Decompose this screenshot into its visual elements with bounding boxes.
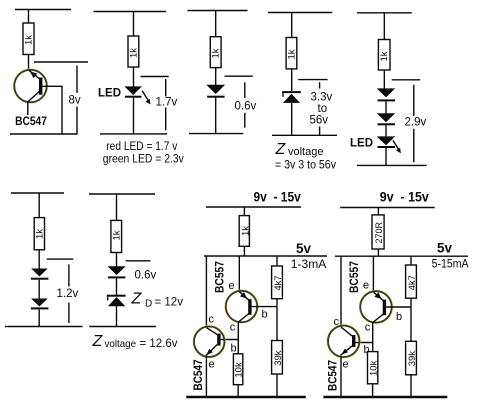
- label ZD = 12v: [131, 291, 184, 310]
- diode D7: [31, 299, 49, 310]
- resistor R2: [128, 36, 139, 67]
- CIRCUIT9: [323, 190, 468, 398]
- bottom rail: [357, 164, 427, 166]
- wire D7 to rail: [38, 309, 40, 326]
- light arrow: [142, 91, 150, 105]
- wire rail to R12: [377, 208, 379, 215]
- bottom rail: [272, 134, 337, 136]
- zener diode ZD1: [282, 91, 301, 103]
- svg-text:e: e: [363, 280, 369, 292]
- svg-text:BC557: BC557: [213, 261, 227, 293]
- wire D2 to rail: [215, 98, 217, 134]
- CIRCUIT3: [188, 11, 257, 135]
- svg-text:4k7: 4k7: [273, 275, 284, 290]
- resistor R6: [34, 218, 44, 250]
- resistor R4: [286, 38, 297, 69]
- svg-text:5v: 5v: [437, 241, 453, 256]
- svg-text:e: e: [343, 359, 349, 371]
- wire R3 to D2: [215, 68, 217, 85]
- measure line vertical: [413, 85, 415, 163]
- svg-text:2.9v: 2.9v: [405, 117, 427, 129]
- svg-text:1k: 1k: [35, 229, 46, 239]
- diode D2: [206, 85, 225, 98]
- measure line top: [298, 79, 327, 81]
- svg-text:= 3v 3 to 56v: = 3v 3 to 56v: [275, 160, 336, 172]
- svg-text:LED: LED: [350, 138, 373, 150]
- svg-text:0.6v: 0.6v: [235, 101, 257, 113]
- wire LED to rail: [133, 98, 135, 134]
- measure line vertical: [76, 66, 78, 135]
- wire rail to R7: [116, 194, 118, 220]
- resistor R14 39k: [406, 341, 417, 375]
- svg-text:1k: 1k: [128, 48, 139, 58]
- LED D1: [124, 86, 142, 97]
- diode D8: [108, 266, 126, 278]
- light arrow: [393, 140, 401, 153]
- svg-text:10k: 10k: [234, 362, 245, 378]
- wire R10 to 0v rail: [276, 374, 278, 397]
- wire D3 to D4: [385, 101, 387, 113]
- svg-text:9v - 15v: 9v - 15v: [254, 190, 302, 205]
- measure line top: [34, 61, 88, 63]
- resistor R5: [378, 40, 390, 71]
- measure line vertical: [165, 79, 167, 130]
- CIRCUIT7: [89, 194, 183, 350]
- svg-text:BC547: BC547: [193, 360, 205, 391]
- wire 5v rail to R9: [276, 256, 278, 266]
- svg-text:= 12v: = 12v: [155, 297, 184, 309]
- resistor R12 270R: [372, 215, 384, 249]
- svg-text:9v - 15v: 9v - 15v: [380, 190, 429, 205]
- svg-text:1.2v: 1.2v: [57, 288, 79, 300]
- CIRCUIT6: [5, 193, 83, 327]
- CIRCUIT4: [268, 13, 337, 172]
- svg-text:voltage: voltage: [288, 146, 323, 158]
- svg-text:e: e: [209, 359, 215, 371]
- CIRCUIT2: [94, 12, 185, 166]
- svg-text:= 12.6v: = 12.6v: [140, 338, 178, 350]
- supply rail top: [268, 12, 332, 14]
- bottom rail: [5, 326, 83, 328]
- measure line top: [47, 258, 74, 260]
- resistor R8 1k: [239, 216, 249, 247]
- wire R2 to LED: [133, 67, 135, 87]
- svg-text:red LED = 1.7 v: red LED = 1.7 v: [106, 141, 177, 153]
- svg-text:39k: 39k: [273, 350, 284, 366]
- svg-text:Z: Z: [131, 291, 143, 308]
- collector stub: [27, 102, 29, 115]
- svg-text:1.7v: 1.7v: [156, 97, 178, 109]
- svg-text:b: b: [396, 311, 402, 323]
- measure line top: [141, 76, 169, 78]
- wire R7 to D8: [116, 253, 118, 268]
- diode D4: [377, 113, 396, 125]
- resistor R9 4k7: [272, 266, 283, 299]
- transistor Q5 BC547: [327, 325, 360, 358]
- svg-text:BC557: BC557: [347, 261, 361, 293]
- base wire Q3: [220, 339, 238, 341]
- svg-text:10k: 10k: [368, 360, 379, 376]
- svg-text:1k: 1k: [211, 48, 222, 58]
- svg-text:b: b: [231, 343, 237, 355]
- measure line top: [392, 79, 421, 81]
- CIRCUIT1: [10, 10, 88, 135]
- measure line short: [126, 260, 151, 262]
- CIRCUIT8: [186, 190, 327, 398]
- supply rail top: [357, 12, 412, 14]
- svg-text:Z: Z: [275, 141, 287, 158]
- wire left branch upper: [340, 256, 342, 326]
- svg-text:56v: 56v: [310, 115, 329, 127]
- svg-text:5-15mA: 5-15mA: [432, 259, 469, 271]
- wire LED to rail: [385, 148, 387, 165]
- wire left branch upper: [205, 256, 207, 327]
- svg-text:270R: 270R: [374, 221, 384, 243]
- bottom rail: [100, 133, 167, 135]
- svg-text:c: c: [365, 321, 371, 333]
- base wire Q2: [252, 306, 277, 308]
- rail 5v: [335, 255, 468, 257]
- supply rail top: [89, 193, 155, 195]
- wire R11 to 0v rail: [237, 385, 239, 398]
- svg-text:1k: 1k: [112, 230, 123, 240]
- svg-text:Z: Z: [92, 333, 104, 350]
- supply rail top: [94, 11, 167, 13]
- wire rail to R2: [133, 12, 135, 37]
- zener diode ZD2: [107, 295, 126, 307]
- resistor R11 10k: [233, 354, 242, 385]
- resistor R1: [23, 23, 34, 55]
- wire 5v rail to Q2 emitter: [238, 256, 240, 292]
- wire Q2 collector down: [237, 322, 239, 354]
- bottom rail: [10, 133, 78, 135]
- svg-text:voltage: voltage: [105, 338, 137, 350]
- wire left branch lower: [340, 357, 342, 398]
- bottom rail: [189, 133, 243, 135]
- svg-text:1k: 1k: [240, 226, 251, 236]
- wire R13 to R14: [410, 298, 412, 341]
- wire ZD2 to rail: [116, 306, 118, 326]
- svg-text:BC547: BC547: [15, 116, 47, 128]
- supply rail top: [206, 206, 301, 208]
- wire R14 to 0v rail: [410, 375, 412, 397]
- measure line vertical: [319, 82, 321, 135]
- wire rail to R5: [383, 13, 385, 40]
- resistor R13 4k7: [406, 265, 417, 298]
- supply rail top: [340, 207, 435, 209]
- svg-text:5v: 5v: [296, 241, 312, 256]
- svg-text:e: e: [229, 280, 235, 292]
- wire R6 to D6: [38, 250, 40, 269]
- wire R9 to R10: [276, 299, 278, 341]
- svg-text:1k: 1k: [286, 49, 297, 59]
- svg-text:1-3mA: 1-3mA: [291, 259, 327, 271]
- rail 5v: [204, 255, 327, 257]
- bottom rail: [89, 326, 156, 328]
- transistor Q1 BC547: [14, 69, 48, 103]
- base wire Q4: [386, 306, 411, 308]
- wire zener to rail: [291, 103, 293, 135]
- resistor R15 10k: [368, 352, 378, 384]
- note Z voltage = 12.6v: [92, 333, 178, 350]
- wire 5v rail to Q4 emitter: [372, 256, 374, 292]
- wire left branch lower: [205, 357, 207, 398]
- svg-text:1k: 1k: [379, 51, 390, 61]
- wire R8 to 5v rail: [243, 246, 245, 256]
- wire Q4 collector down: [372, 322, 374, 351]
- base wire: [42, 86, 62, 134]
- svg-text:LED: LED: [98, 88, 121, 100]
- svg-text:b: b: [262, 309, 268, 321]
- wire R1 to Q1 emitter: [28, 55, 30, 71]
- wire R12 to 5v rail: [377, 249, 379, 256]
- wire rail to R4: [291, 13, 293, 38]
- resistor R10 39k: [272, 341, 283, 375]
- resistor R3: [210, 37, 221, 68]
- svg-text:3.3v: 3.3v: [311, 92, 333, 104]
- svg-text:BC547: BC547: [328, 360, 340, 391]
- transistor Q4 BC557: [360, 290, 393, 323]
- svg-text:D: D: [145, 299, 152, 310]
- supply rail top: [11, 192, 64, 194]
- svg-text:c: c: [230, 321, 236, 333]
- transistor Q2 BC557: [225, 290, 258, 323]
- wire rail to R6: [38, 193, 40, 218]
- CIRCUIT5: [350, 13, 427, 166]
- svg-text:0.6v: 0.6v: [135, 270, 157, 282]
- svg-text:39k: 39k: [407, 351, 418, 367]
- svg-text:green LED = 2.3v: green LED = 2.3v: [103, 154, 184, 166]
- wire R5 to D3: [383, 70, 385, 89]
- wire D4 to LED: [385, 125, 387, 137]
- svg-text:8v: 8v: [69, 95, 81, 107]
- svg-text:1k: 1k: [24, 35, 35, 45]
- measure line vertical: [244, 82, 246, 127]
- supply rail top: [188, 10, 248, 12]
- svg-text:c: c: [209, 314, 215, 326]
- wire 5v rail to R13: [410, 256, 412, 265]
- wire D6 to D7: [38, 280, 40, 299]
- supply rail top: [15, 9, 71, 11]
- diode D3: [377, 88, 396, 101]
- wire R15 to 0v rail: [372, 384, 374, 398]
- resistor R7: [111, 220, 122, 252]
- wire rail to R3: [215, 11, 217, 37]
- wire rail to R1: [28, 10, 30, 24]
- measure line vertical: [68, 265, 70, 324]
- svg-text:to: to: [318, 103, 328, 115]
- LED D5: [377, 136, 396, 148]
- wire R4 to zener: [291, 69, 293, 92]
- wire rail to R8: [243, 207, 245, 216]
- base wire Q5: [355, 342, 373, 344]
- transistor Q3 BC547: [193, 326, 225, 358]
- rail 0v: [323, 396, 447, 398]
- diode D6: [31, 269, 49, 280]
- svg-text:4k7: 4k7: [407, 275, 418, 290]
- measure line top: [225, 75, 253, 77]
- rail 0v: [186, 396, 305, 398]
- wire D8 to ZD2: [116, 278, 118, 295]
